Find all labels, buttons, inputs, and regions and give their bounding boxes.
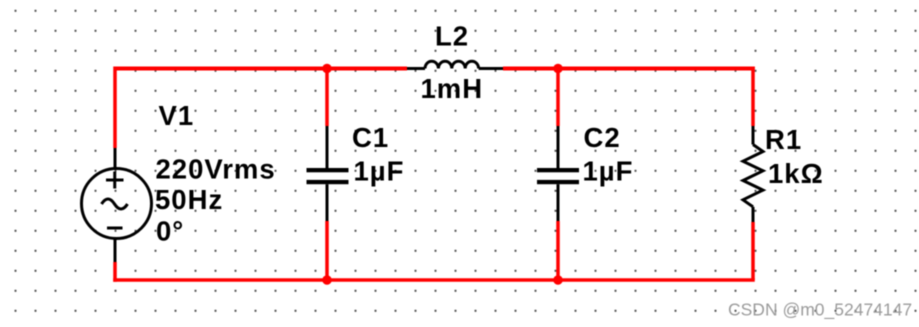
svg-text:V1: V1: [159, 100, 195, 131]
svg-text:220Vrms: 220Vrms: [156, 154, 276, 185]
svg-text:50Hz: 50Hz: [155, 184, 223, 215]
svg-text:1mH: 1mH: [421, 73, 484, 104]
svg-text:1kΩ: 1kΩ: [768, 158, 824, 189]
svg-text:0°: 0°: [156, 216, 184, 247]
svg-text:1µF: 1µF: [583, 156, 634, 187]
svg-text:C1: C1: [352, 122, 389, 153]
svg-text:L2: L2: [435, 21, 469, 52]
svg-text:CSDN @m0_52474147: CSDN @m0_52474147: [728, 300, 912, 321]
svg-text:C2: C2: [584, 122, 621, 153]
svg-text:1µF: 1µF: [354, 156, 405, 187]
svg-text:R1: R1: [765, 124, 802, 155]
